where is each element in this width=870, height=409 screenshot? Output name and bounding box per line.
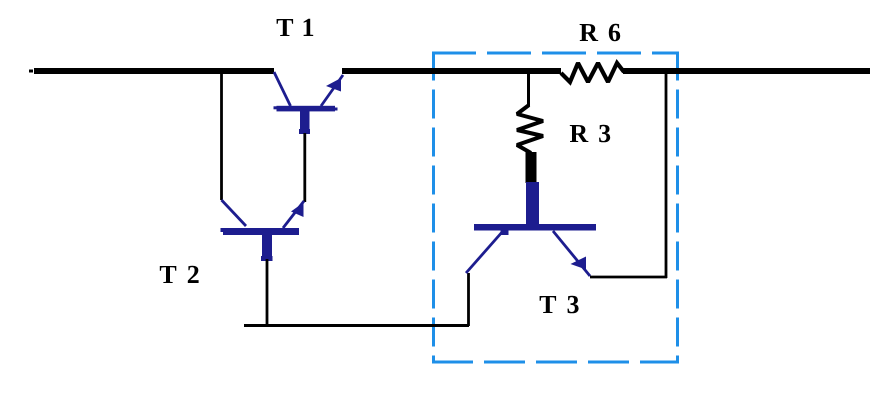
wire: thick segment from R3 to T3 base [526, 152, 537, 183]
wire: T3 emitter horizontal to right branch [590, 276, 667, 279]
wire: left vertical drop from rail to T2 collector [220, 73, 223, 200]
transistor T1 [274, 72, 344, 134]
wire: T1 base down to T2 emitter [303, 133, 306, 202]
label T2 [160, 266, 199, 283]
resistor R6 [561, 63, 624, 82]
dashed selection box [432, 52, 678, 364]
wire: bottom horizontal from T2 base to T3 collector branch [244, 324, 469, 327]
transistor T3 [466, 182, 596, 276]
wire: right vertical from emitter wire up to rail [665, 74, 668, 278]
transistor T2 [221, 200, 305, 261]
wire: vertical from bottom wire up to T3 collector [467, 273, 470, 326]
label R6 [580, 24, 621, 42]
label R3 [570, 125, 610, 143]
wire: top rail right segment [623, 68, 870, 74]
wire: T2 base down [266, 259, 269, 326]
label T3 [540, 296, 579, 314]
wire: top rail middle segment [342, 68, 561, 74]
wire: rail drop to R3 [527, 73, 530, 106]
wire: top rail left segment [29, 68, 274, 74]
label T1 [277, 19, 314, 36]
resistor R3 [517, 105, 543, 153]
